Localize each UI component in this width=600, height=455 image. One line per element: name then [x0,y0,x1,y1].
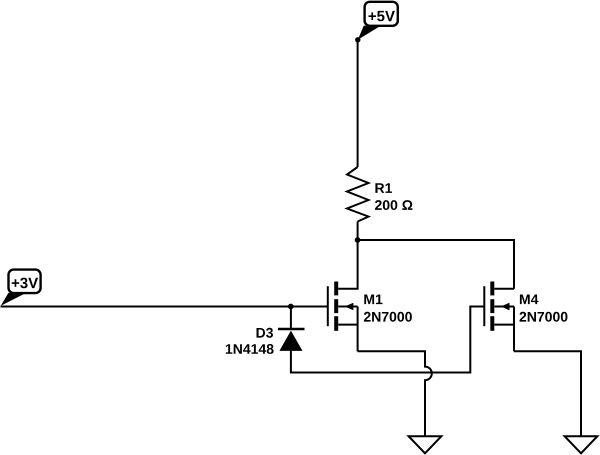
label M4 [520,295,539,305]
M4 drain wire [494,288,514,290]
M1 body arrow [345,303,354,311]
label M1 [364,295,382,305]
M1 channel bar drain segment [334,282,338,296]
resistor R1 [347,167,369,222]
M1 source vertical [357,307,359,352]
wire +5V to R1 top [357,40,359,167]
wire +3V to M1 gate [1,306,328,308]
M4 channel bar drain segment [490,282,494,296]
D3 anode triangle [279,331,302,351]
label M1 value 2N7000 [364,312,412,322]
label R1 [375,183,392,193]
transistor M4 (2N7000 NMOS) [484,282,514,352]
M4 source wire [494,324,514,326]
net flag +5V [355,2,398,43]
ground (M1 source) [409,436,442,453]
M4 channel bar source segment [490,316,494,331]
diode D3 (1N4148) [278,307,305,373]
M1 channel bar body segment [334,299,338,313]
wire R1 bottom to node [357,222,359,241]
label R1 value 200 ohm [375,200,412,210]
D3 top wire [290,307,292,330]
M4 gate line [483,286,485,326]
transistor M1 (2N7000 NMOS) [328,282,358,352]
net flag +3V [1,270,41,306]
node junction dot (gate wire / D3) [288,304,294,310]
M4 body wire [494,306,514,308]
M1 channel bar source segment [334,316,338,331]
wire D3 anode to M4 gate [290,307,484,373]
D3 cathode bar [278,328,305,330]
node junction dot (R1 / M1 drain / M4 drain) [355,237,361,243]
M1 source wire [338,324,357,326]
M4 body arrow [501,303,510,311]
M1 gate line [327,286,329,326]
D3 bottom wire [290,351,292,373]
label D3 [257,328,274,338]
M4 source vertical [513,307,515,352]
wire node down to M1 drain [338,240,357,289]
M1 body wire [338,306,357,308]
label M4 value 2N7000 [520,312,568,322]
M4 channel bar body segment [490,299,494,313]
ground (M4 source) [565,436,598,453]
wire M4 source to ground [514,351,581,436]
label D3 value 1N4148 [226,344,274,354]
wire M1 source to ground with hop over gate wire [358,351,432,436]
wire node to M4 drain [358,240,514,289]
